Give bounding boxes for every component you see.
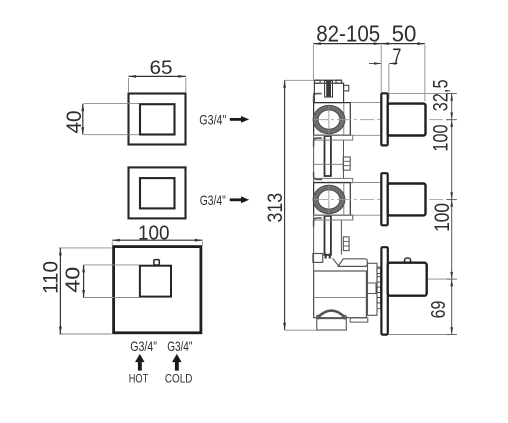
ridge bump 4: [377, 298, 381, 303]
square trim plate 1 inner knob: [140, 104, 175, 134]
bracket body: [314, 83, 343, 102]
svg-text:HOT: HOT: [129, 371, 149, 385]
hot up arrow: [138, 362, 142, 371]
svg-text:G3/4": G3/4": [167, 338, 192, 354]
dimension 65 extension lines: [128, 78, 130, 92]
housing upper band: [314, 178, 353, 182]
bracket side tab: [344, 85, 349, 91]
wall flange 1: [381, 93, 387, 145]
dome foot right: [343, 315, 347, 319]
lower-left step: [314, 218, 322, 227]
svg-text:G3/4": G3/4": [130, 338, 157, 354]
svg-text:100: 100: [429, 124, 452, 151]
large plate knob square: [140, 266, 171, 297]
right dimension chain extension lines: [389, 92, 450, 94]
cartridge outer ring: [313, 185, 345, 213]
dimension 40 (top square) line: [82, 104, 84, 135]
mixer main body: [314, 271, 367, 318]
joint line: [314, 163, 344, 165]
dimension 40 (large plate) line: [83, 265, 85, 298]
cartridge outer ring: [313, 105, 345, 133]
knob 3 indicator bump: [405, 258, 411, 264]
svg-text:65: 65: [150, 58, 173, 79]
tick knob2 center: [447, 199, 457, 201]
stem line bottom: [350, 134, 381, 136]
dimension 82-105 / 50 extension lines: [312, 45, 314, 80]
svg-text:100: 100: [431, 203, 454, 232]
bracket tab right: [336, 80, 342, 83]
dimension 40 (top square) extension lines: [84, 103, 139, 105]
sloped top edge: [333, 258, 339, 266]
bottom outlet box: [317, 319, 347, 330]
knob indicator bump: [154, 260, 159, 265]
svg-text:100: 100: [138, 221, 170, 244]
body left edge line: [313, 93, 315, 318]
wall flange 3: [381, 247, 387, 334]
threaded rod below: [325, 216, 331, 255]
dimension 7: [388, 64, 390, 99]
connecting block: [368, 263, 378, 315]
cartridge crosshair horizontal / centerline: [314, 119, 450, 121]
cartridge inner circle: [318, 110, 340, 129]
tick knob3 center: [447, 278, 457, 280]
dimension 313 line: [284, 80, 286, 330]
square trim plate 1 outer: [129, 94, 186, 145]
right edge line: [340, 220, 342, 254]
valve 1 group: [313, 80, 449, 176]
svg-text:69: 69: [428, 301, 450, 319]
cartridge crosshair horizontal / centerline: [314, 199, 450, 201]
dome foot left: [316, 315, 320, 319]
right edge line: [343, 140, 345, 178]
stem line bottom: [350, 214, 381, 216]
threaded rod below: [325, 136, 331, 176]
svg-text:COLD: COLD: [165, 371, 193, 385]
upper-left step: [314, 172, 323, 179]
svg-text:110: 110: [40, 261, 63, 294]
cartridge crosshair vertical: [328, 184, 330, 215]
mixer body group: [313, 254, 381, 331]
svg-text:G3/4": G3/4": [200, 192, 226, 208]
valve housing: [314, 183, 351, 216]
housing lower band redrawn over rod: [314, 215, 353, 220]
nipple fitting vertical: [343, 237, 349, 251]
G3/4" arrow top: [230, 118, 243, 121]
dimension 100 line: [112, 239, 202, 241]
svg-text:40: 40: [63, 111, 86, 134]
housing panel line: [343, 183, 345, 216]
connector section between valves: [314, 140, 351, 178]
svg-text:G3/4": G3/4": [199, 111, 226, 127]
bracket left step: [314, 94, 322, 103]
tick bottom: [447, 334, 457, 336]
dimension 110 line: [59, 248, 61, 334]
dimension 65 line: [129, 75, 186, 77]
mounting bracket top line: [314, 79, 341, 81]
svg-text:50: 50: [392, 21, 417, 47]
bracket tab left: [314, 80, 320, 83]
square trim plate 2 inner knob: [140, 178, 175, 208]
right dimension chain line: [451, 93, 453, 334]
cold up arrow: [175, 362, 179, 371]
dimension 40 (large plate) extension lines: [84, 264, 139, 266]
body joint line lower: [314, 296, 367, 298]
outlet tube: [338, 259, 367, 267]
dimension 82-105 / 50 line: [313, 43, 425, 45]
stem line top: [350, 102, 381, 104]
dome arch: [318, 311, 345, 318]
valve housing: [314, 103, 351, 136]
chain arrows: [450, 93, 453, 100]
housing lower band: [314, 135, 353, 140]
ridge bump 3: [377, 287, 381, 292]
svg-text:40: 40: [62, 267, 84, 293]
wall flange 2: [381, 173, 387, 225]
dimension 100 extension lines: [111, 242, 113, 245]
threaded rod in slot: [326, 80, 331, 97]
dimension 313 extension lines: [285, 79, 314, 81]
svg-text:32,5: 32,5: [429, 79, 452, 111]
square trim plate 2 outer: [129, 167, 186, 218]
valve 2 group: [313, 172, 449, 258]
lower-left step: [314, 138, 322, 147]
ridge strip: [377, 267, 381, 309]
rod dark tips: [325, 254, 327, 259]
ridge bump 1: [377, 268, 381, 273]
svg-text:82-105: 82-105: [316, 21, 380, 47]
lower connector section: [341, 220, 349, 254]
tick knob1 center: [447, 119, 457, 121]
handle knob 2: [388, 184, 426, 216]
housing lower band: [314, 215, 353, 220]
ridge bump 2: [377, 277, 381, 282]
svg-text:313: 313: [263, 193, 287, 223]
housing panel line: [343, 103, 345, 136]
svg-text:7: 7: [392, 44, 401, 69]
cartridge inner circle: [318, 190, 340, 209]
wall bracket box: [313, 254, 323, 263]
dimension 110 extension lines: [59, 247, 112, 249]
handle knob 3: [388, 263, 427, 296]
stem line top: [350, 182, 381, 184]
side plate: [350, 318, 368, 322]
G3/4" arrow middle: [230, 198, 243, 201]
tick 32,5 top: [447, 92, 457, 94]
handle knob 1: [388, 104, 426, 136]
large trim plate outer: [114, 247, 201, 333]
nipple fitting: [343, 157, 350, 170]
block fitting: [368, 283, 377, 294]
cartridge crosshair vertical: [328, 105, 330, 136]
bracket slot: [325, 81, 333, 97]
